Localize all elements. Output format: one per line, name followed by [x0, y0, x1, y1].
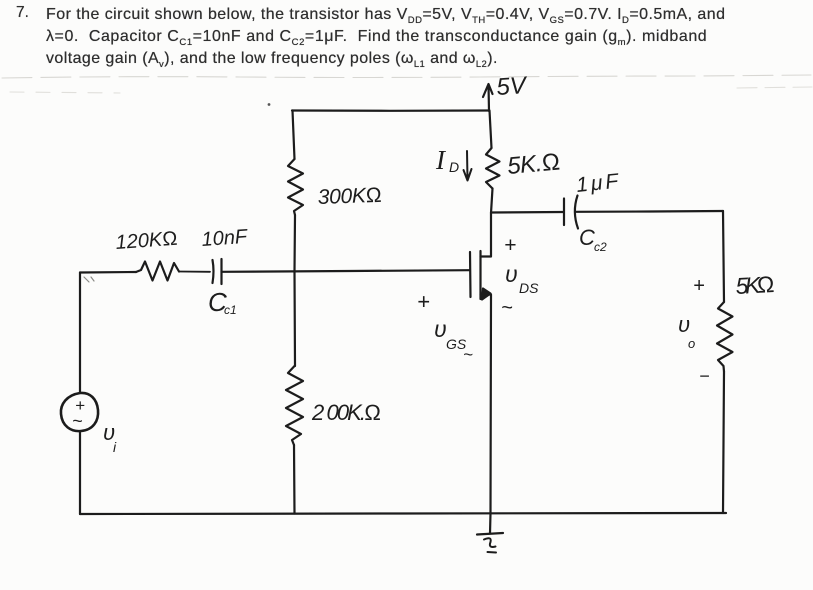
- wire bias branch top: [293, 111, 295, 160]
- svg-text:10nF: 10nF: [201, 226, 250, 251]
- node VDD 5V arrow: [483, 84, 493, 111]
- svg-text:+: +: [693, 275, 705, 297]
- wire drain stem: [490, 111, 492, 149]
- capacitor C_C2: [564, 196, 578, 229]
- svg-text:5KΩ: 5KΩ: [735, 271, 775, 299]
- wire input top left: [80, 271, 136, 274]
- svg-text:c1: c1: [224, 303, 237, 317]
- svg-text:υ: υ: [434, 316, 447, 342]
- wire C_C2 to right corner: [576, 210, 723, 213]
- wire bias branch middle: [293, 215, 296, 366]
- ground: [489, 514, 492, 534]
- resistor 120k: [136, 262, 179, 281]
- svg-text:C: C: [579, 225, 595, 250]
- wire drain node to C_C2: [491, 211, 564, 214]
- svg-text:o: o: [688, 336, 695, 351]
- wire input left vertical: [79, 273, 81, 394]
- wire bias branch bottom: [293, 445, 296, 514]
- resistor 200k: [286, 366, 303, 445]
- resistor 300k: [288, 159, 303, 215]
- svg-text:~: ~: [463, 345, 473, 364]
- wire right branch bottom: [723, 372, 724, 514]
- scan artifact line: [2, 75, 812, 93]
- svg-text:c2: c2: [594, 240, 607, 254]
- svg-text:D: D: [449, 159, 459, 175]
- svg-text:2 00K.Ω: 2 00K.Ω: [311, 400, 381, 425]
- wire source to bottom rail: [79, 431, 81, 514]
- resistor 5k load: [717, 302, 733, 372]
- svg-text:υ: υ: [678, 312, 690, 337]
- capacitor C_C1: [213, 259, 222, 284]
- current arrow ID: [464, 151, 472, 181]
- wire gate: [222, 270, 470, 272]
- svg-text:120KΩ: 120KΩ: [115, 228, 178, 254]
- svg-text:300KΩ: 300KΩ: [317, 184, 382, 209]
- resistor 5k drain: [486, 148, 500, 189]
- svg-text:υ: υ: [505, 261, 518, 287]
- wire 5k to drain node: [491, 189, 493, 214]
- svg-text:~: ~: [72, 411, 83, 431]
- svg-text:DS: DS: [519, 280, 539, 296]
- wire resistor to C_C1: [179, 271, 210, 273]
- source vi circle: [61, 393, 98, 431]
- wire right branch top: [723, 211, 724, 302]
- svg-text:+: +: [417, 289, 430, 314]
- svg-text:−: −: [699, 366, 710, 386]
- svg-text:I: I: [435, 145, 447, 175]
- stray dot: [268, 103, 271, 106]
- svg-text:5K.Ω: 5K.Ω: [506, 148, 561, 180]
- svg-text:~: ~: [501, 297, 513, 319]
- svg-text:i: i: [113, 439, 117, 455]
- transistor M1: [469, 252, 472, 297]
- svg-text:+: +: [504, 234, 516, 257]
- svg-text:5V: 5V: [496, 72, 529, 101]
- wire bottom rail: [80, 513, 726, 514]
- svg-text:1μF: 1μF: [575, 170, 620, 197]
- wire top rail: [292, 109, 489, 112]
- stray mark: [84, 277, 94, 282]
